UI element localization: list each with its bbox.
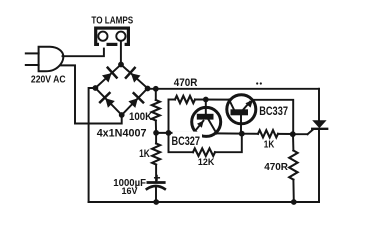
svg-text:BC337: BC337 xyxy=(259,106,288,118)
node thyristor gate junction xyxy=(290,131,296,137)
resistor 1K (vertical) xyxy=(152,133,160,182)
diode D2 1N4007 (bridge upper-right) xyxy=(121,65,148,89)
wire plug lower lead to bridge bottom node xyxy=(61,65,122,123)
diode D3 1N4007 (bridge lower-left) xyxy=(95,88,121,115)
wire mid node to BC327 emitter xyxy=(156,132,194,134)
node 100K top tap xyxy=(153,86,159,92)
resistor 470R (lower) xyxy=(289,134,297,202)
svg-text:16V: 16V xyxy=(122,186,139,196)
svg-text:BC327: BC327 xyxy=(172,136,201,148)
node 470R bottom rail junction xyxy=(291,199,297,205)
node bridge left xyxy=(93,85,99,91)
transistor Q2 BC337 (NPN) xyxy=(227,95,256,134)
wire top positive rail xyxy=(148,88,319,90)
svg-text:12K: 12K xyxy=(198,157,215,168)
node speck marks (scan dots) xyxy=(256,82,262,84)
node BC327 base tap xyxy=(203,97,209,103)
svg-text:470R: 470R xyxy=(174,77,198,89)
wire right rail down to thyristor anode xyxy=(318,89,320,121)
diode D4 1N4007 (bridge lower-right) xyxy=(122,88,148,115)
node bridge right xyxy=(145,86,151,92)
wire gate node to thyristor gate xyxy=(293,129,314,134)
wire BC327 collector to BC337 base node xyxy=(216,132,241,134)
wire bottom rail xyxy=(89,201,319,203)
node BC337 base / mid rail xyxy=(239,131,245,137)
wire branch up to 470R xyxy=(168,100,170,133)
node capacitor bottom rail junction xyxy=(153,199,159,205)
svg-text:470R: 470R xyxy=(264,161,288,173)
wire lamp connector right pin to bridge top node xyxy=(120,41,122,65)
label BC327 xyxy=(172,132,203,149)
wire bridge left corner to bottom rail xyxy=(89,88,96,202)
resistor 100K xyxy=(152,89,160,133)
node bridge top xyxy=(118,62,124,68)
transistor Q1 BC327 (PNP) xyxy=(192,100,221,137)
node divider mid (100K/1K junction) xyxy=(153,130,159,136)
plug P1 220V AC mains plug xyxy=(26,47,64,72)
diode D1 1N4007 (bridge upper-left) xyxy=(95,65,121,89)
svg-text:220V AC: 220V AC xyxy=(31,73,66,85)
resistor 470R (upper) xyxy=(169,96,229,103)
label BC337 xyxy=(258,105,290,118)
thyristor SCR xyxy=(312,120,327,202)
svg-text:1K: 1K xyxy=(264,139,275,150)
resistor 12K xyxy=(169,133,242,156)
resistor 1K (horizontal) xyxy=(242,130,293,137)
wire BC337 emitter to gate branch xyxy=(254,100,294,134)
node mid-left branch xyxy=(166,130,172,136)
svg-text:1K: 1K xyxy=(139,148,150,160)
svg-text:100K: 100K xyxy=(129,111,152,123)
connector J1 TO LAMPS xyxy=(96,28,129,48)
node bridge bottom xyxy=(119,112,125,118)
svg-text:4x1N4007: 4x1N4007 xyxy=(97,127,147,139)
capacitor C1 1000uF 16V xyxy=(147,176,165,203)
svg-text:TO LAMPS: TO LAMPS xyxy=(91,16,133,27)
wire plug tip to lamp connector left pin xyxy=(63,41,104,56)
